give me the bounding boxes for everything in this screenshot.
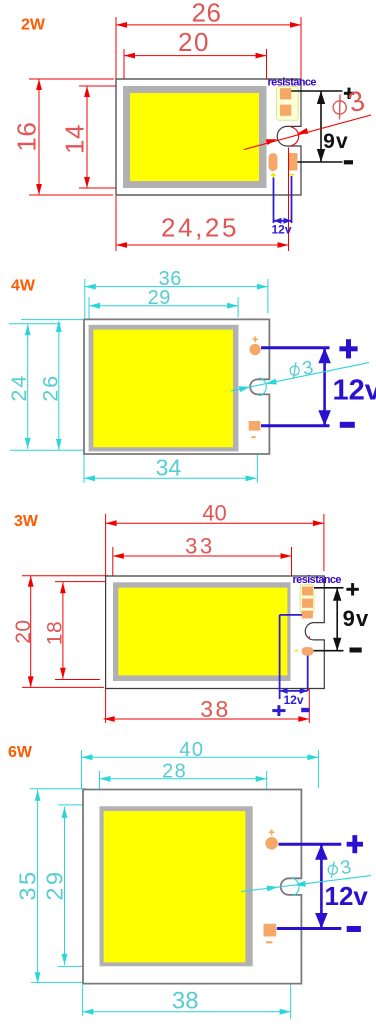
svg-text:20: 20 [178,27,210,57]
svg-text:38: 38 [172,987,199,1014]
svg-text:6W: 6W [8,744,33,761]
svg-text:9v: 9v [343,606,370,631]
svg-text:24,25: 24,25 [161,213,239,243]
svg-text:26: 26 [39,374,63,402]
svg-text:28: 28 [162,760,187,782]
svg-text:24: 24 [7,374,31,402]
svg-text:12v: 12v [333,375,376,407]
svg-text:4W: 4W [11,278,36,295]
svg-text:3W: 3W [14,513,39,530]
svg-text:40: 40 [202,500,226,525]
svg-text:35: 35 [15,869,41,900]
svg-text:16: 16 [12,122,42,152]
svg-text:3: 3 [339,857,353,880]
svg-text:12v: 12v [271,223,291,237]
svg-text:40: 40 [179,739,204,761]
svg-text:2W: 2W [21,17,46,34]
svg-text:18: 18 [44,621,67,645]
svg-text:3: 3 [345,84,368,118]
svg-text:26: 26 [192,0,222,28]
svg-text:9v: 9v [323,130,349,153]
svg-text:38: 38 [200,696,230,722]
svg-text:34: 34 [156,455,182,481]
svg-text:33: 33 [185,534,215,559]
svg-text:20: 20 [12,619,35,643]
svg-text:29: 29 [41,869,67,900]
svg-text:29: 29 [148,287,171,309]
svg-text:resistance: resistance [293,574,342,586]
svg-text:resistance: resistance [268,77,317,89]
svg-text:14: 14 [60,124,90,154]
svg-text:12v: 12v [325,881,369,911]
svg-text:12v: 12v [283,693,303,707]
